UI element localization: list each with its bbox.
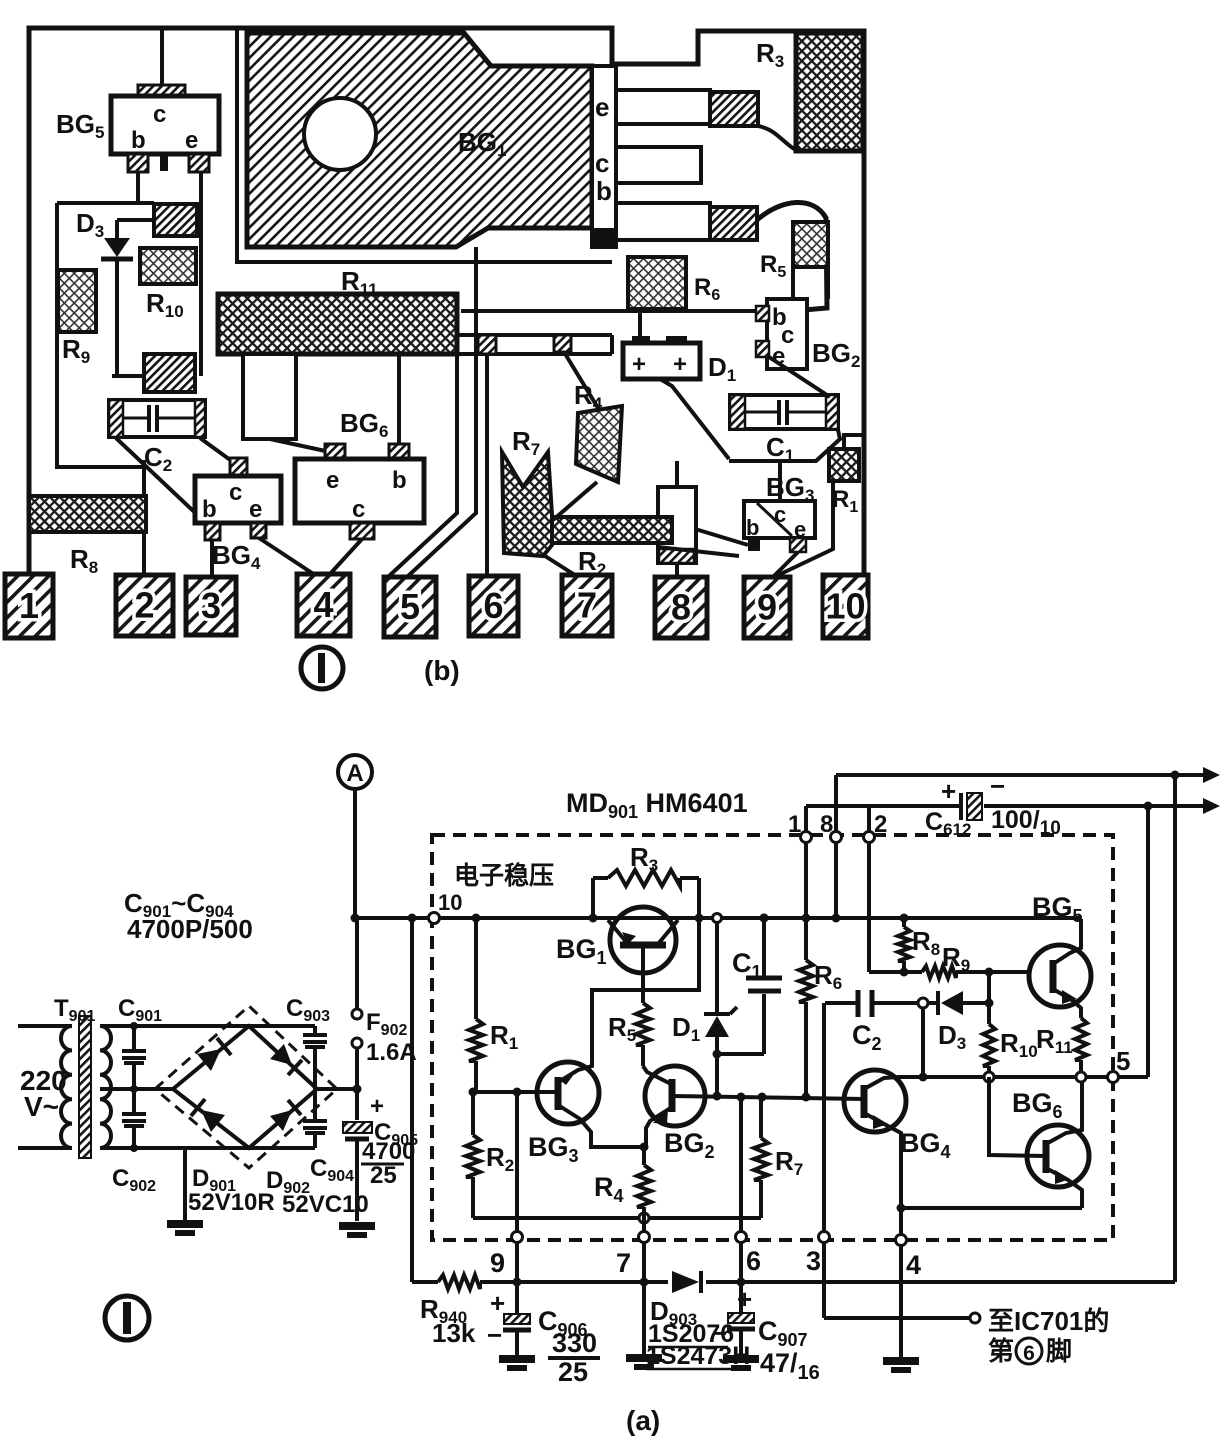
wire BG2 e to C1 <box>769 357 830 397</box>
diode D3 <box>918 991 989 1053</box>
chip outer border <box>29 28 864 575</box>
IC pin 10 <box>429 890 463 924</box>
transistor BG1 big hatched die area <box>247 33 592 247</box>
c lead (open box) <box>616 147 701 183</box>
svg-text:e: e <box>185 127 198 154</box>
IC pin 3 <box>806 1232 830 1277</box>
svg-text:25: 25 <box>370 1162 397 1189</box>
bridge rectifier diamond <box>173 1026 317 1148</box>
bridge rectifier D901 D902 dashed outline <box>155 1006 337 1168</box>
wire top out line 1 <box>836 767 1220 783</box>
wire BG2 base line <box>672 1096 864 1099</box>
b lead wire <box>616 203 712 240</box>
capacitor C901 <box>118 995 162 1093</box>
wire C612 to node 5 vertical <box>1146 806 1150 1077</box>
svg-text:b: b <box>392 467 407 494</box>
wire pin8 vertical <box>834 775 838 918</box>
wire C2 to BG4 c contact <box>200 438 233 462</box>
resistor R4 <box>594 1143 651 1215</box>
IC MD901 dashed boundary <box>432 835 1113 1240</box>
resistor R5 <box>608 945 650 1066</box>
wire bus feeder <box>410 918 414 1282</box>
wire secondary top <box>100 1024 315 1028</box>
svg-text:−: − <box>487 1320 502 1350</box>
wire BG5 c to top border <box>160 28 164 85</box>
pin 6 <box>469 576 518 636</box>
svg-text:至IC701的: 至IC701的 <box>988 1306 1109 1336</box>
svg-text:1: 1 <box>19 585 39 626</box>
transistor BG6 <box>989 1077 1089 1208</box>
IC pin 7 <box>616 1232 650 1279</box>
bridge diode top-left <box>197 1038 231 1071</box>
svg-text:6: 6 <box>1023 1342 1035 1365</box>
wire R1 to pin 9 <box>770 481 833 579</box>
label to IC701 <box>988 1306 1109 1366</box>
resistor R2 <box>466 1092 514 1218</box>
svg-text:10: 10 <box>438 890 462 915</box>
contact to R4 <box>554 335 571 352</box>
node A circle <box>338 755 372 918</box>
wire BG4 BG6 emitter rail <box>897 1204 1083 1213</box>
svg-text:330: 330 <box>552 1328 597 1358</box>
wire R4 top <box>564 352 598 408</box>
conductor R11 to BG6 e <box>243 354 330 452</box>
wire R2 to BG3 b <box>672 522 748 545</box>
wire C2 left to pin2 column <box>142 460 146 577</box>
resistor R10 <box>983 972 1038 1072</box>
wire BG5 e down to C2 area <box>199 172 203 376</box>
wire BG4 b to pin 3 <box>210 540 214 577</box>
svg-text:+: + <box>673 351 687 378</box>
svg-text:b: b <box>746 515 759 540</box>
resistor R6 <box>628 257 720 309</box>
wire conductor to pin 8 <box>675 461 679 577</box>
resistor R5 <box>760 222 828 281</box>
svg-text:13k: 13k <box>432 1318 476 1348</box>
wire C1 to BG3 c <box>778 461 782 501</box>
diode D1 <box>623 336 736 385</box>
wire secondary tap <box>100 1087 173 1091</box>
D3 enclosure lines <box>57 203 154 467</box>
e lead wire <box>616 90 712 124</box>
pad strip bottom contact <box>592 228 616 247</box>
svg-text:(b): (b) <box>424 655 460 686</box>
pin 4 <box>297 574 350 636</box>
wire BG3 e to pin 9 <box>772 552 798 578</box>
wire common conductor bottom <box>729 430 840 461</box>
svg-text:2: 2 <box>134 585 154 626</box>
wire pin4 vertical and ground <box>883 1208 919 1370</box>
conductor strip right of R11 <box>457 335 612 354</box>
resistor R8 <box>898 918 940 972</box>
resistor R1 <box>829 449 859 516</box>
transistor BG6 <box>295 408 424 539</box>
wire pin 6 column <box>485 354 489 576</box>
pin 3 <box>186 577 236 635</box>
ground pin 7 <box>626 1358 662 1367</box>
wire pin2 vertical <box>867 806 871 972</box>
resistor R2 bar <box>552 517 672 579</box>
capacitor C906 <box>487 1288 600 1387</box>
svg-text:第: 第 <box>988 1336 1014 1366</box>
resistor R6 <box>799 918 842 1097</box>
svg-text:8: 8 <box>671 587 691 628</box>
pin8 conductor box <box>658 487 696 563</box>
resistor R7 <box>502 426 552 556</box>
BG1 pad strip with e c b pads <box>592 66 616 247</box>
svg-text:V~: V~ <box>24 1091 59 1122</box>
svg-text:9: 9 <box>490 1248 505 1278</box>
diode D3 <box>76 208 154 376</box>
svg-text:b: b <box>202 496 217 523</box>
resistor R3 <box>756 33 863 151</box>
wire R4 bottom <box>553 482 597 520</box>
svg-text:4: 4 <box>906 1250 921 1280</box>
wire contact to R3 <box>758 126 796 150</box>
transformer T901 <box>54 995 111 1158</box>
resistor R11 <box>1036 1018 1087 1072</box>
wire 220V input <box>18 1026 72 1148</box>
svg-text:c: c <box>229 479 242 506</box>
wire pin1 vertical <box>804 806 808 918</box>
b lead contact <box>710 207 757 240</box>
wire R7 to pin 7 <box>545 556 578 577</box>
capacitor C2 <box>109 354 205 475</box>
wire BG4 e to pin 4 <box>259 538 315 575</box>
svg-text:c: c <box>595 148 609 178</box>
svg-text:c: c <box>153 101 166 128</box>
svg-text:_: _ <box>652 355 667 382</box>
capacitor C1 <box>713 914 783 1059</box>
orientation mark circled I <box>301 647 343 689</box>
IC pin 1 <box>788 811 812 843</box>
orientation mark circled I lower <box>105 1296 149 1340</box>
bridge diode bottom-left <box>191 1099 225 1132</box>
wire R1 to border <box>844 435 864 449</box>
svg-text:7: 7 <box>577 585 597 626</box>
svg-text:52V10R: 52V10R <box>188 1189 275 1216</box>
wire BG3 base <box>473 1090 558 1094</box>
wire pin3 to C2 vertical <box>822 1003 826 1318</box>
svg-text:3: 3 <box>806 1246 821 1276</box>
svg-text:3: 3 <box>201 585 221 626</box>
resistor R9 <box>869 942 1031 978</box>
transistor BG1 <box>556 907 678 973</box>
svg-text:(a): (a) <box>626 1405 660 1436</box>
svg-text:脚: 脚 <box>1046 1336 1072 1366</box>
wire emitter rail <box>473 1216 761 1220</box>
svg-text:4700P/500: 4700P/500 <box>127 914 253 944</box>
fuse F902 <box>352 918 417 1089</box>
svg-text:b: b <box>596 176 612 206</box>
svg-text:+: + <box>632 351 646 378</box>
wire D1 to common conductor <box>660 379 729 459</box>
wire R2 to BG3 lower <box>658 547 739 556</box>
IC pin 2 <box>864 811 888 843</box>
resistor R11 bar <box>218 266 457 354</box>
pin 7 <box>562 575 612 636</box>
svg-text:6: 6 <box>483 585 503 626</box>
resistor R940 and bottom rail <box>412 1275 1175 1348</box>
svg-text:A: A <box>346 760 363 787</box>
transistor BG3 <box>528 918 699 1166</box>
capacitor C903 <box>286 995 330 1089</box>
capacitor C2 <box>825 990 918 1054</box>
bridge diode top-right <box>270 1044 302 1075</box>
wire BG5 b down <box>136 172 140 203</box>
svg-text:4: 4 <box>313 584 333 625</box>
svg-text:e: e <box>326 467 339 494</box>
capacitor C907 <box>712 1284 820 1384</box>
wire right feedback vertical <box>1173 775 1177 1282</box>
transistor BG3 <box>744 472 815 552</box>
capacitor C905 <box>339 1085 418 1236</box>
resistor R3 <box>593 842 699 918</box>
wire BG6 c to pin 4 <box>330 539 362 574</box>
svg-text:8: 8 <box>820 811 833 838</box>
svg-text:5: 5 <box>1116 1046 1130 1076</box>
wire pin3 output to IC701 <box>824 1313 980 1323</box>
svg-text:e: e <box>249 496 262 523</box>
svg-text:7: 7 <box>616 1248 631 1278</box>
zener diode D1 <box>672 914 737 1097</box>
capacitor C902 <box>112 1089 156 1195</box>
resistor R7 <box>754 1097 803 1218</box>
wire BG6 b up <box>397 355 401 444</box>
resistor R8 bar <box>29 496 146 577</box>
pin 9 <box>744 577 790 638</box>
wire C2 branch vertical <box>921 1008 925 1077</box>
pin 8 <box>655 577 707 638</box>
pin 1 <box>5 574 53 638</box>
capacitor C612 and out line 2 <box>806 771 1220 839</box>
bridge diode bottom-right <box>270 1100 301 1131</box>
wire R5 to BG2 <box>793 267 828 299</box>
IC pin 6 <box>736 1232 762 1277</box>
capacitor C904 <box>303 1089 354 1185</box>
svg-text:c: c <box>352 496 365 523</box>
transistor BG5 <box>56 85 219 172</box>
wire C2 to BG4 b <box>116 438 206 523</box>
svg-text:−: − <box>712 1318 727 1348</box>
IC pin 8 <box>820 811 842 843</box>
svg-text:5: 5 <box>400 586 420 627</box>
wire bridge output <box>317 1087 357 1091</box>
e lead contact <box>710 92 758 126</box>
svg-text:2: 2 <box>874 811 887 838</box>
resistor R9 <box>58 270 96 367</box>
svg-text:e: e <box>595 92 609 122</box>
svg-text:b: b <box>131 127 146 154</box>
pin 10 <box>823 575 868 638</box>
contact to pin6 line <box>478 335 496 354</box>
wire D1 top stub <box>638 311 642 336</box>
capacitor C1 <box>730 395 838 465</box>
wire pin9 vertical <box>515 1092 519 1313</box>
resistor R4 <box>574 380 622 482</box>
resistor R10 <box>140 248 196 321</box>
resistor R1 <box>469 918 518 1092</box>
ground below bridge <box>167 1148 203 1233</box>
transistor BG5 <box>1029 892 1091 1018</box>
IC pin 4 <box>896 1235 922 1281</box>
main bus <box>355 916 1081 920</box>
svg-text:6: 6 <box>746 1246 761 1276</box>
transistor BG4 <box>195 458 281 573</box>
svg-text:10: 10 <box>825 586 865 627</box>
wire b lead to BG2 base <box>757 202 827 313</box>
pin 2 <box>116 575 173 636</box>
svg-text:1.6A: 1.6A <box>366 1039 417 1066</box>
svg-text:9: 9 <box>757 587 777 628</box>
diode D903 <box>646 1271 750 1370</box>
svg-text:4700: 4700 <box>362 1138 415 1165</box>
wire node row above D1 <box>461 309 757 313</box>
svg-text:−: − <box>990 771 1005 801</box>
svg-text:+: + <box>941 776 956 806</box>
transistor BG2 <box>756 299 860 371</box>
svg-text:MD901 HM6401: MD901 HM6401 <box>566 788 748 822</box>
wire pin7 vertical <box>642 1214 646 1355</box>
svg-text:1: 1 <box>788 811 801 838</box>
node 5 line <box>898 1072 1148 1082</box>
IC pin 9 <box>490 1232 523 1279</box>
wire pin6 vertical <box>739 1097 743 1312</box>
svg-text:+: + <box>490 1288 505 1318</box>
svg-text:+: + <box>737 1284 752 1314</box>
IC pin 5 <box>1108 1046 1131 1083</box>
contact pad right of D3 <box>154 204 197 236</box>
transistor BG2 <box>643 1066 715 1162</box>
svg-text:25: 25 <box>558 1357 588 1387</box>
svg-text:c: c <box>774 502 786 527</box>
conductor to pin 5 <box>388 247 476 577</box>
transistor BG4 <box>844 1070 951 1208</box>
BG1 inner tub border <box>237 30 612 262</box>
wire secondary bottom <box>100 1146 315 1150</box>
svg-text:+: + <box>370 1093 384 1120</box>
svg-text:电子稳压: 电子稳压 <box>454 861 554 890</box>
pin 5 <box>384 577 436 637</box>
